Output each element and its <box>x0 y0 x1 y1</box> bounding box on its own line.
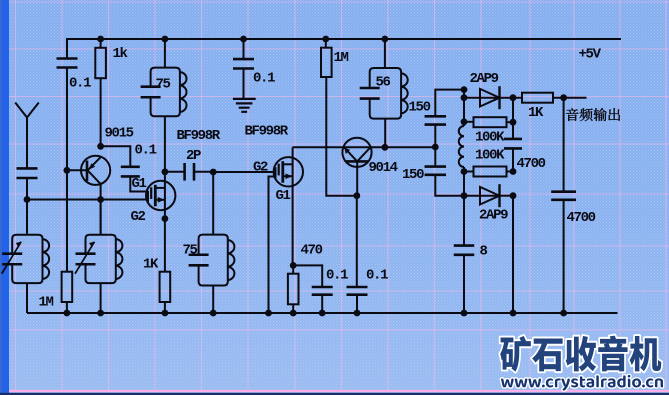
label Q2 9014 <box>369 160 398 176</box>
node Q1 emitter junction <box>97 143 104 150</box>
transistor Q2 9014 <box>342 138 371 196</box>
tank T2 variable <box>75 200 122 314</box>
label R5 1M <box>334 50 349 66</box>
node Q2 collector tank junction <box>382 144 389 151</box>
label C5 0.1 <box>326 267 348 283</box>
inductor L1 chokes <box>459 126 464 167</box>
label C4 0.1 <box>253 70 275 86</box>
svg-text:1M: 1M <box>334 50 349 66</box>
label T5 75 <box>183 243 198 259</box>
label R4 470 <box>301 243 323 259</box>
capacitor C8 150 <box>425 147 464 196</box>
svg-text:0.1: 0.1 <box>366 267 388 283</box>
node U1 drain junction <box>162 168 169 175</box>
node D2 cathode junction <box>510 192 517 199</box>
node D1 cathode junction <box>510 94 517 101</box>
svg-text:0.1: 0.1 <box>135 142 157 158</box>
capacitor C2 0.1 to G1 <box>101 146 148 191</box>
resistor R1 1k <box>95 36 106 147</box>
node Q1 base junction <box>64 167 71 174</box>
label D1 2AP9 <box>470 71 499 87</box>
label C8 150 <box>402 167 424 183</box>
svg-text:4700: 4700 <box>567 210 596 226</box>
capacitor C11 4700 output <box>551 98 576 313</box>
watermark 矿石收音机 <box>500 336 661 372</box>
node rail junctions bottom <box>64 310 567 317</box>
capacitor C7 150 <box>425 90 464 147</box>
label U1 G1 <box>132 176 147 192</box>
capacitor C9 4700 <box>504 98 522 172</box>
node Q1 collector to G2 wire <box>97 196 104 203</box>
label R8 1K <box>528 105 544 121</box>
svg-text:G2: G2 <box>131 209 146 225</box>
svg-text:1K: 1K <box>528 105 544 121</box>
svg-text:150: 150 <box>402 167 424 183</box>
node Q2 base junction <box>353 192 360 199</box>
svg-text:0.1: 0.1 <box>253 70 275 86</box>
diode D1 2AP9 <box>464 86 522 109</box>
label R1 1k <box>113 46 128 62</box>
label C11 4700 <box>567 210 596 226</box>
node R7 right junction <box>510 168 517 175</box>
label R7 100K <box>475 148 505 164</box>
svg-text:BF998R: BF998R <box>245 124 289 140</box>
label R3 1K <box>143 257 159 273</box>
svg-text:BF998R: BF998R <box>177 128 221 144</box>
node antenna junction <box>24 196 31 203</box>
node R4 top <box>290 262 297 269</box>
label C9 4700 <box>517 156 546 172</box>
label C3 2P <box>186 148 201 164</box>
label D2 2AP9 <box>479 208 508 224</box>
wire C3 to U2 G2 <box>213 171 275 173</box>
ground symbol <box>233 99 256 112</box>
label R2 1M <box>39 295 54 311</box>
label C10 8 <box>480 243 488 259</box>
label U1 BF998R <box>177 128 221 144</box>
wire D2 cathode to rail <box>512 196 514 313</box>
wire U2 drain up <box>292 147 294 171</box>
svg-text:56: 56 <box>376 75 391 91</box>
svg-text:150: 150 <box>409 100 431 116</box>
mosfet U1 BF998R <box>146 181 175 210</box>
transistor Q1 9015 <box>67 156 110 185</box>
antenna <box>15 103 39 200</box>
wire ladder bottom segment <box>463 167 465 196</box>
capacitor C10 8 <box>454 196 475 313</box>
capacitor C3 2P <box>165 163 213 181</box>
wire Q2 collector to divider <box>372 146 436 148</box>
svg-text:100K: 100K <box>475 130 505 146</box>
svg-text:0.1: 0.1 <box>326 267 348 283</box>
svg-text:2AP9: 2AP9 <box>479 208 508 224</box>
svg-text:9015: 9015 <box>105 126 134 142</box>
wire antenna to G2 <box>27 199 148 201</box>
resistor R6 100K <box>464 117 513 127</box>
wire ground bottom rail <box>27 312 618 314</box>
svg-text:G1: G1 <box>132 176 147 192</box>
svg-text:G1: G1 <box>276 188 291 204</box>
wire +5V top rail <box>66 38 621 40</box>
node divider mid <box>432 144 439 151</box>
label U2 BF998R <box>245 124 289 140</box>
label R6 100K <box>475 130 505 146</box>
svg-text:2AP9: 2AP9 <box>470 71 499 87</box>
node L1 bottom junction <box>461 168 468 175</box>
svg-text:1k: 1k <box>113 46 128 62</box>
wire U2 G1 to ground <box>269 177 276 314</box>
watermark www.crystalradio.cn <box>501 375 663 391</box>
wire U1 source down <box>164 172 166 272</box>
node R6 right junction <box>510 119 517 126</box>
capacitor C6 0.1 <box>347 196 368 313</box>
label U1 G2 <box>131 209 146 225</box>
wire Q1 collector down <box>100 184 102 235</box>
node C3 output <box>210 169 217 176</box>
node D1 anode junction <box>461 94 468 101</box>
svg-text:+5V: +5V <box>579 47 602 63</box>
left page border bar <box>0 0 9 395</box>
svg-text:0.1: 0.1 <box>69 76 91 92</box>
label C2 0.1 <box>135 142 157 158</box>
resistor R8 1K output <box>522 93 587 103</box>
svg-text:470: 470 <box>301 243 323 259</box>
svg-text:2P: 2P <box>186 148 201 164</box>
svg-text:G2: G2 <box>253 160 268 176</box>
capacitor C1 0.1 top-left <box>57 39 78 272</box>
node output junction <box>560 94 567 101</box>
label C7 150 <box>409 100 431 116</box>
label +5V <box>579 47 602 63</box>
svg-text:1M: 1M <box>39 295 54 311</box>
svg-text:9014: 9014 <box>369 160 398 176</box>
svg-text:8: 8 <box>480 243 488 259</box>
resistor R2 1M bottom-left <box>62 272 73 313</box>
resistor R7 100K <box>464 167 513 177</box>
node U1 source junction <box>162 215 169 222</box>
svg-text:100K: 100K <box>475 148 505 164</box>
resistor R5 1M <box>321 36 357 196</box>
node detector bottom <box>461 192 468 199</box>
wire ladder top segment <box>463 90 465 126</box>
mosfet U2 BF998R <box>274 157 303 186</box>
label U2 G1 <box>276 188 291 204</box>
label C1 0.1 <box>69 76 91 92</box>
tank T4 56 <box>360 36 408 148</box>
svg-text:1K: 1K <box>143 257 159 273</box>
wire U2 drain to Q2 <box>293 146 343 148</box>
label C6 0.1 <box>366 267 388 283</box>
bottom page border band <box>0 393 669 395</box>
tank T1 variable <box>2 200 49 314</box>
svg-text:75: 75 <box>156 77 171 93</box>
diode D2 2AP9 <box>464 184 513 207</box>
label T4 56 <box>376 75 391 91</box>
resistor R3 1K <box>160 272 171 313</box>
tank T5 75 <box>189 172 235 313</box>
wire U2 source down <box>292 171 294 265</box>
svg-text:4700: 4700 <box>517 156 546 172</box>
label Q1 9015 <box>105 126 134 142</box>
capacitor C4 0.1 decoupling <box>233 36 254 99</box>
svg-text:75: 75 <box>183 243 198 259</box>
tank T3 75 <box>141 36 187 172</box>
resistor R4 470 <box>288 265 299 313</box>
node L1 top junction <box>461 118 468 125</box>
label U2 G2 <box>253 160 268 176</box>
label audio output 音频输出 <box>566 108 620 121</box>
capacitor C5 0.1 <box>293 265 333 313</box>
node ladder top <box>461 86 468 93</box>
label T3 75 <box>156 77 171 93</box>
